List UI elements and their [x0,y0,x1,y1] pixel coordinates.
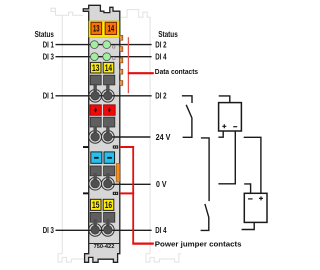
svg-text:14: 14 [108,24,115,34]
ghost module left foot [58,254,91,262]
clamp well row1 [89,89,102,102]
svg-text:DI 2: DI 2 [155,92,167,101]
wire DI3 LED row [56,56,152,58]
wire 24V [104,136,150,138]
red wire data contacts vertical [127,37,129,93]
red wire data contacts horizontal [128,72,154,74]
svg-text:DI 3: DI 3 [43,53,55,62]
wire DI1 row1 [56,95,152,97]
svg-text:13: 13 [93,24,100,34]
terminal entry rect row4 [90,212,101,222]
power jumper red square row [90,105,101,116]
svg-text:Status: Status [35,30,55,39]
svg-text:DI 4: DI 4 [155,53,167,62]
terminal number 15 yellow [90,199,101,210]
switch S1 (DI2 to 24V) [182,96,192,138]
terminal entry rect row3 [90,166,101,176]
svg-text:DI 2: DI 2 [155,41,167,50]
red wire power jumper stub2 [120,192,134,194]
clamp circles row2 [93,126,96,134]
terminal number 13 orange [91,22,102,34]
clamp circles row3 [93,173,96,181]
module body 750-422 [83,5,120,262]
data contacts stubs (right edge) [120,35,123,85]
battery B1 minus lead [218,131,235,184]
svg-text:Power jumper contacts: Power jumper contacts [155,239,242,248]
svg-text:Data contacts: Data contacts [155,67,198,76]
clamp well row3 [89,177,102,190]
battery B1 [219,103,242,131]
battery B2 bottom lead [242,222,255,229]
red wire power jumper stub1 [120,146,134,148]
LED DI3 [91,53,99,61]
battery B1 plus lead [218,131,223,137]
terminal number 16 yellow [103,199,114,210]
wire 24V to battery B2 [244,137,261,193]
svg-text:24 V: 24 V [156,133,171,142]
clamp circles row1 [93,85,96,93]
clamp well row2 [89,131,102,144]
clamp circles row4 [93,219,96,227]
battery B2 plus [259,196,263,200]
red wire power jumper vertical [132,146,134,244]
blue terminal squares [91,152,102,163]
LED DI4 [103,53,111,61]
battery B2 top left lead [244,184,250,193]
svg-text:750-422: 750-422 [94,244,115,250]
wire DI3 DI4 row4 [56,229,152,231]
power jumper contact right row2 [113,192,118,195]
ghost module right profile [121,10,150,254]
orange bar right edge [116,164,120,183]
terminal entry rect row1 [90,75,101,85]
svg-text:DI 3: DI 3 [43,226,55,235]
svg-text:0 V: 0 V [156,180,167,189]
svg-text:13: 13 [92,63,99,73]
wire DI1 LED row [56,44,152,46]
power jumper left tab row1 [83,146,89,148]
clamp well row4 [89,224,102,237]
battery B2 [244,193,267,222]
battery B1 minus [233,126,237,128]
wire 0V [104,183,151,185]
svg-text:DI 1: DI 1 [43,92,55,101]
terminal number 14 yellow [103,62,114,73]
svg-text:DI 4: DI 4 [155,226,167,235]
svg-text:Status: Status [158,30,178,39]
terminal number block yellow top [89,21,119,37]
power jumper contact right row1 [113,145,118,148]
ghost module right foot [146,254,181,262]
LED DI2 [103,41,111,49]
red wire power jumper horizontal [132,243,154,245]
module bottom separator line [89,243,120,245]
ghost module left profile [51,8,83,253]
power jumper left tab row2 [83,192,89,194]
LED DI1 [91,41,99,49]
terminal number 14 orange [105,22,116,34]
svg-text:15: 15 [92,200,99,210]
svg-text:DI 1: DI 1 [43,41,55,50]
terminal number 13 yellow [90,62,101,73]
terminal entry rect row2 [90,117,101,127]
battery B2 minus [248,198,253,200]
small marker circles [112,46,115,49]
battery B1 plus [222,124,226,128]
switch S2 (24V to DI4) [201,138,210,231]
battery B1 top lead [219,96,230,103]
svg-text:16: 16 [105,200,112,210]
svg-text:14: 14 [105,63,113,73]
